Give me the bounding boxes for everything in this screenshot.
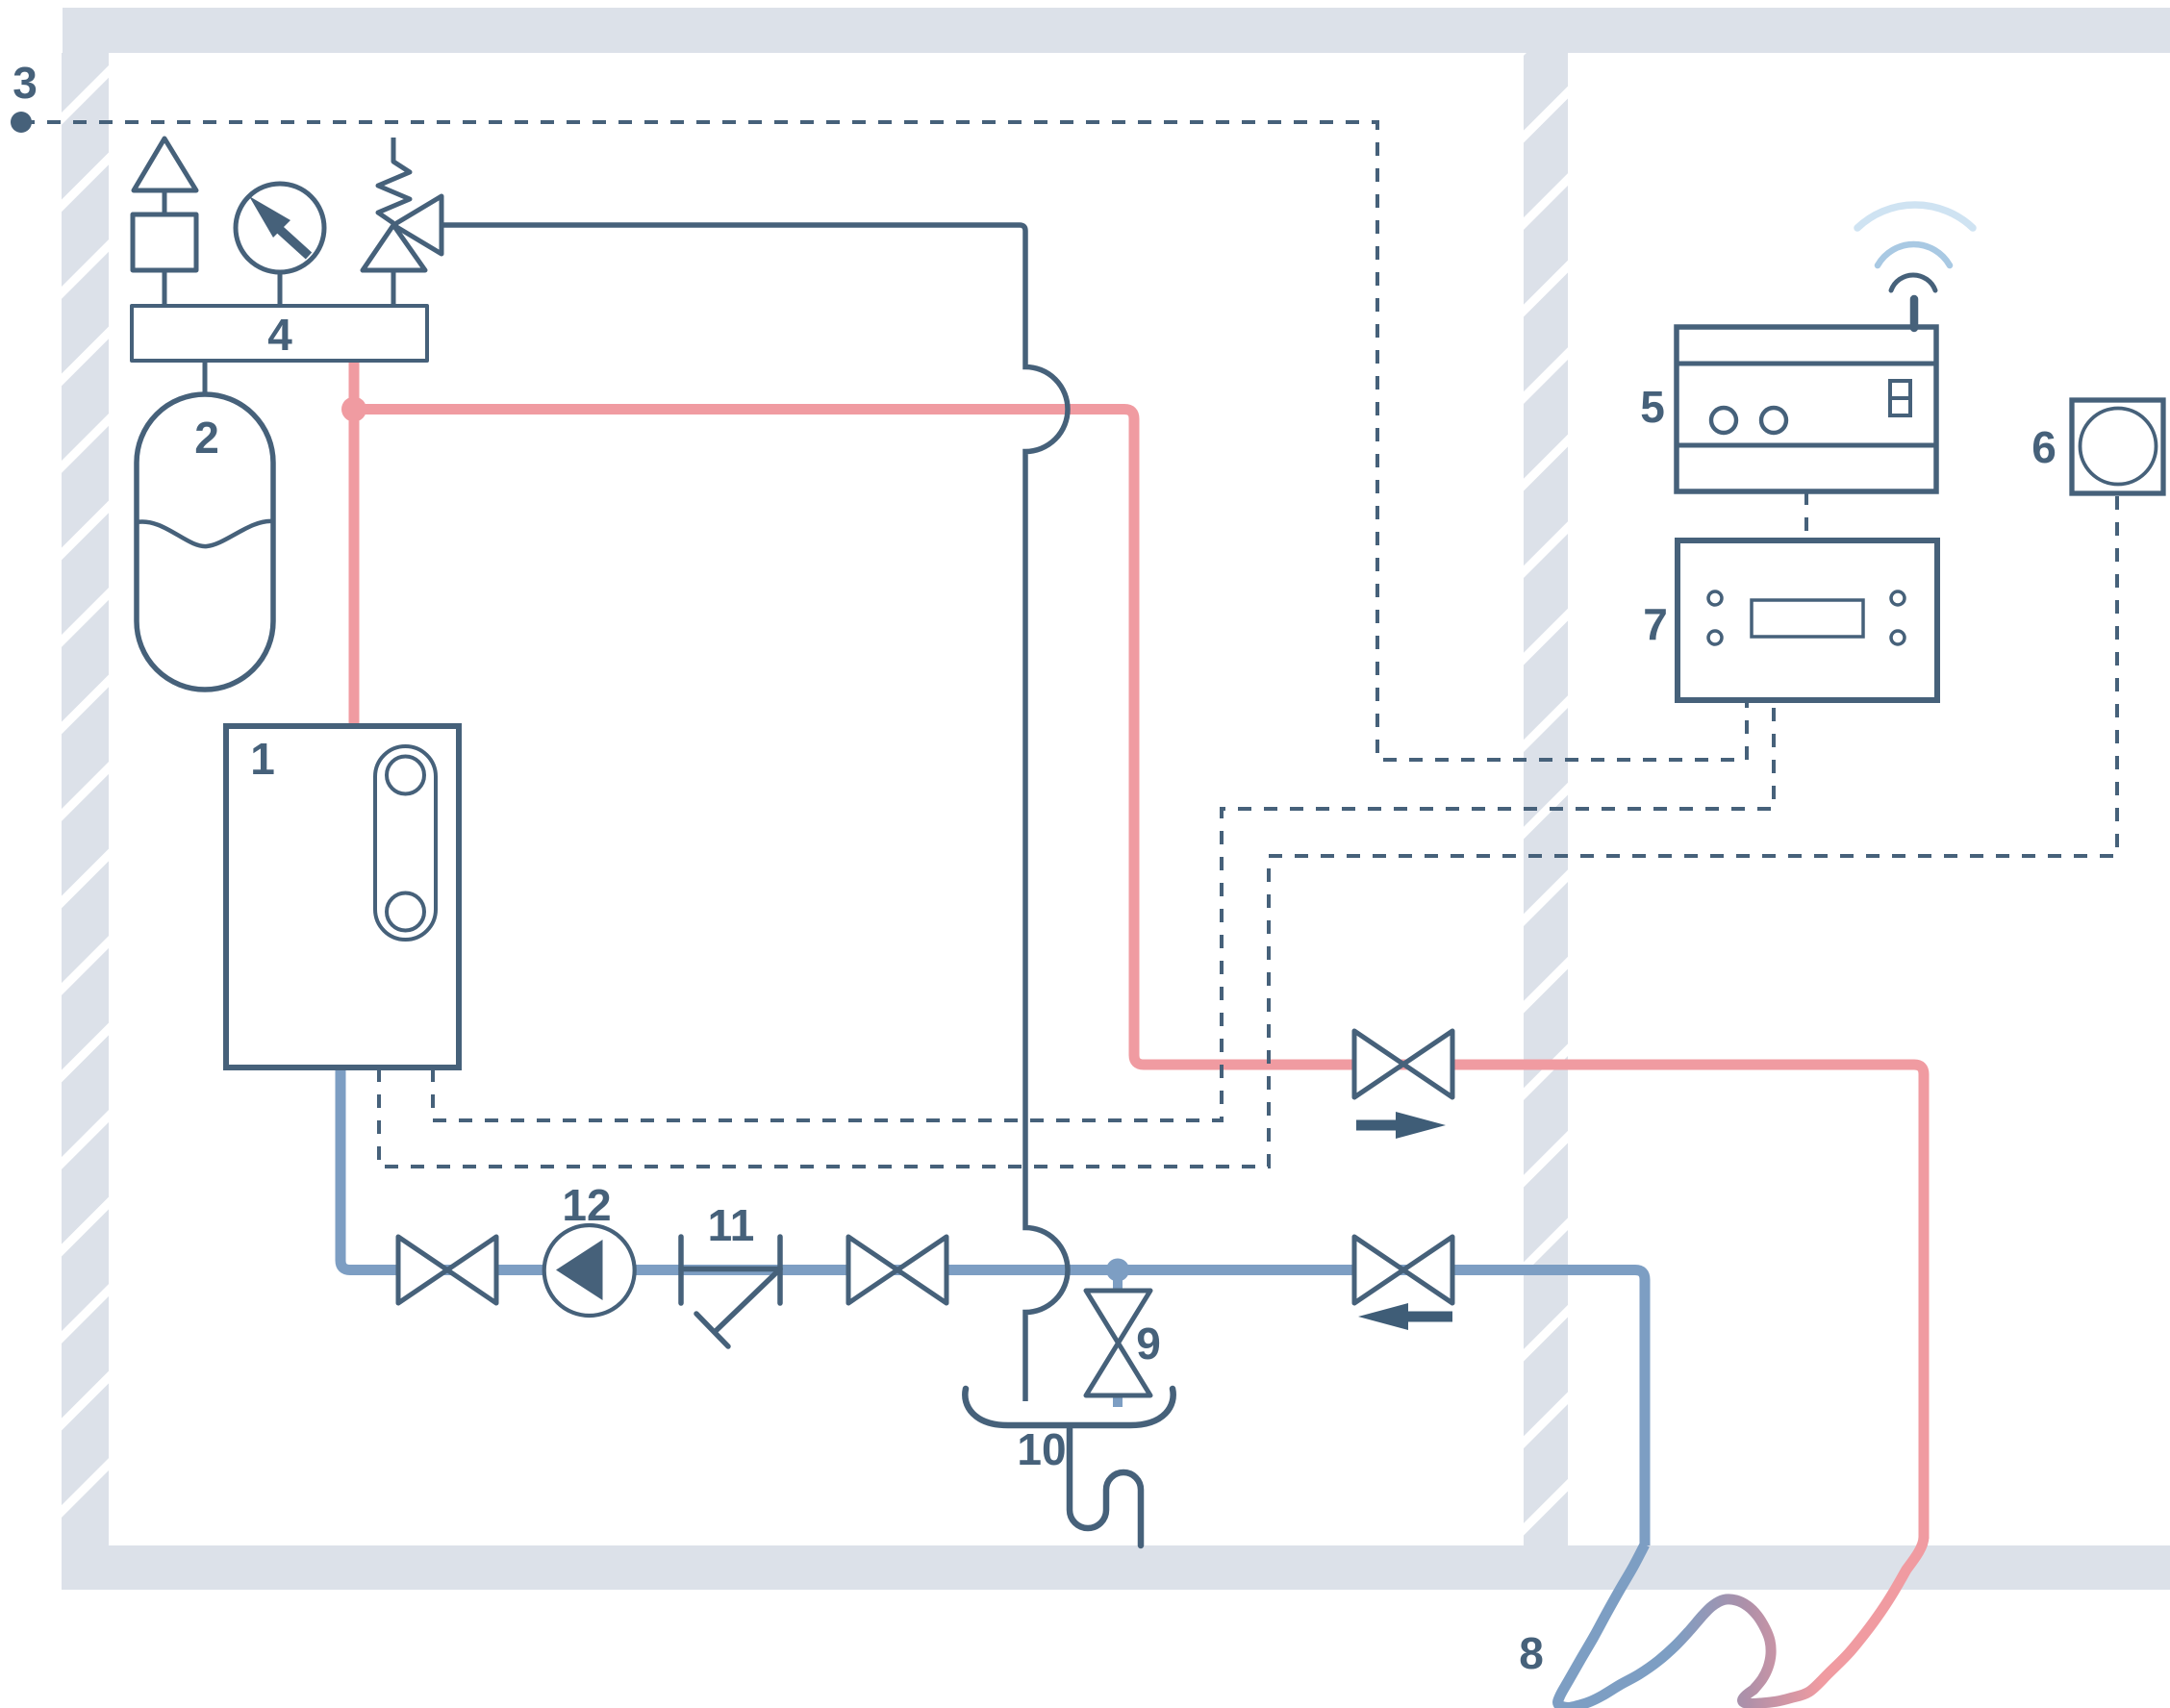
svg-text:4: 4 <box>267 310 292 360</box>
svg-text:6: 6 <box>2031 422 2056 472</box>
svg-text:3: 3 <box>13 58 38 108</box>
svg-text:5: 5 <box>1640 382 1665 432</box>
svg-text:12: 12 <box>562 1180 611 1230</box>
svg-text:2: 2 <box>194 413 219 463</box>
svg-text:8: 8 <box>1519 1628 1544 1678</box>
svg-text:9: 9 <box>1136 1319 1161 1369</box>
svg-text:7: 7 <box>1643 599 1668 649</box>
svg-text:11: 11 <box>708 1200 755 1250</box>
svg-text:10: 10 <box>1017 1424 1066 1474</box>
svg-text:1: 1 <box>250 734 275 784</box>
